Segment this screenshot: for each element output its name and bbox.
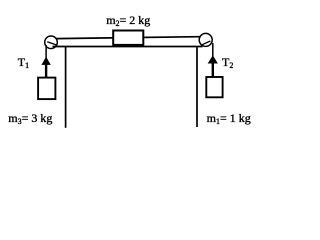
svg-text:m2= 2 kg: m2= 2 kg: [106, 13, 150, 28]
svg-text:T1: T1: [18, 55, 29, 70]
svg-text:T2: T2: [222, 55, 233, 70]
svg-text:m1= 1 kg: m1= 1 kg: [207, 111, 251, 126]
svg-text:m3= 3 kg: m3= 3 kg: [8, 111, 52, 126]
